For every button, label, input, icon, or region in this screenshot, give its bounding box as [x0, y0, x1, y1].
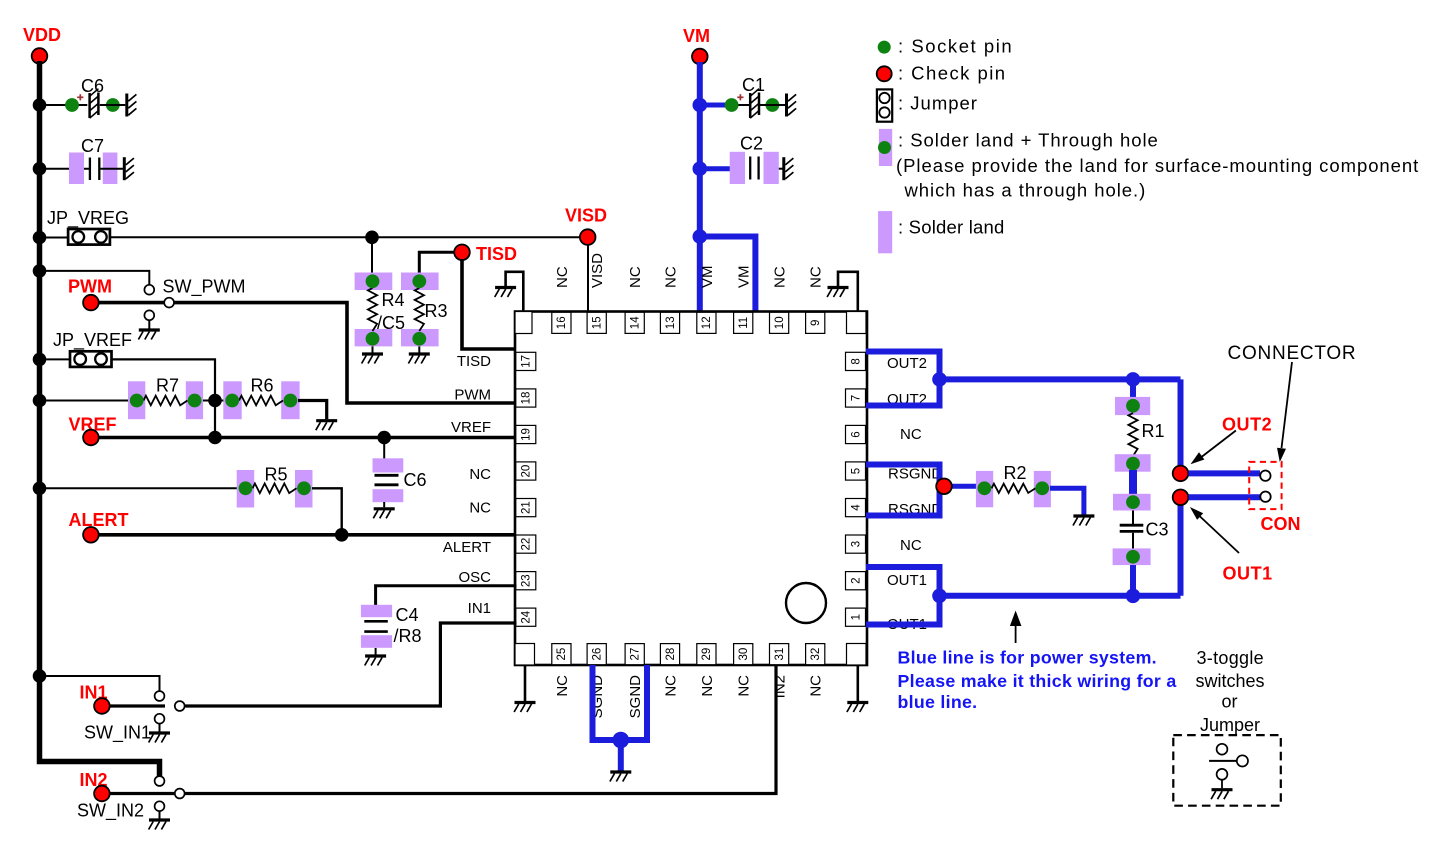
svg-text:CONNECTOR: CONNECTOR — [1228, 343, 1357, 364]
corner pad bottom-left — [515, 644, 535, 666]
svg-text:16: 16 — [556, 316, 568, 329]
pin 22 — [516, 535, 536, 553]
solder land C4 top — [361, 605, 392, 617]
svg-text:which has a through hole.): which has a through hole.) — [904, 180, 1147, 201]
capacitor C4 — [364, 620, 388, 623]
ground C2 — [784, 157, 794, 180]
svg-text:NC: NC — [469, 500, 491, 517]
svg-text:C6: C6 — [404, 470, 427, 490]
pin 19 — [516, 425, 536, 443]
svg-text:NC: NC — [699, 675, 716, 697]
wire R1 tap — [1130, 379, 1136, 398]
svg-text:1: 1 — [850, 614, 862, 620]
solder land C2 right — [764, 152, 779, 184]
wire OUT1 to CON — [1189, 494, 1261, 500]
ground C6 — [127, 94, 137, 117]
wire C4 to ground — [375, 648, 377, 655]
socket pin C3 top — [1126, 495, 1140, 509]
junction OUT1 tee — [932, 589, 947, 604]
ground R6 — [316, 421, 337, 431]
wire JP_VREG to VISD — [110, 236, 580, 238]
svg-text:NC: NC — [808, 266, 825, 288]
wire VDD to C7 — [40, 168, 90, 170]
svg-text:R2: R2 — [1004, 463, 1027, 483]
wire OUT2 drop — [1178, 379, 1184, 467]
svg-text:R7: R7 — [156, 376, 179, 396]
socket pin R6 left — [225, 394, 239, 408]
svg-text:3: 3 — [850, 541, 862, 547]
junction VM-C2 — [693, 161, 708, 176]
junction VDD-JP_VREG — [33, 231, 47, 245]
svg-text:ALERT: ALERT — [69, 510, 129, 530]
socket pin R2 left — [978, 481, 992, 495]
solder land C2 left — [730, 152, 745, 184]
wire OUT2 pins — [866, 352, 940, 406]
socket pin R3 bottom — [412, 332, 426, 346]
check pin PWM — [83, 295, 99, 311]
svg-text:7: 7 — [850, 395, 862, 401]
svg-text:JP_VREF: JP_VREF — [53, 330, 132, 351]
svg-text:VDD: VDD — [23, 25, 61, 45]
solder land R3 bottom — [401, 329, 439, 346]
wire VISD to pin15 — [587, 244, 589, 314]
svg-text:RSGND: RSGND — [888, 466, 942, 483]
capacitor C6 — [88, 93, 91, 118]
wire pad bottom-left to ground — [524, 665, 527, 701]
pin 32 — [806, 644, 825, 665]
svg-text:VM: VM — [683, 26, 710, 46]
ground top-left pad — [495, 288, 516, 298]
wire C3 to OUT1 — [1130, 565, 1136, 596]
check pin TISD — [454, 245, 470, 261]
junction VDD-R7 — [33, 394, 47, 408]
wire C7 to ground — [100, 168, 123, 170]
ground R4 — [362, 354, 383, 364]
svg-text:: Jumper: : Jumper — [898, 93, 978, 114]
pin 26 — [587, 644, 606, 665]
pin 18 — [516, 389, 536, 407]
svg-text:OUT2: OUT2 — [1222, 415, 1272, 435]
svg-text:10: 10 — [774, 316, 786, 329]
svg-text:TISD: TISD — [457, 353, 491, 370]
svg-text:R4: R4 — [382, 290, 405, 310]
pin 6 — [846, 425, 866, 443]
solder land R7 left — [128, 381, 145, 419]
wire SGND stem — [618, 740, 624, 771]
svg-text:(Please provide the land for s: (Please provide the land for surface-mou… — [896, 155, 1419, 176]
socket pin R7 right — [188, 394, 202, 408]
pin 3 — [846, 535, 866, 553]
wire C2 to ground — [779, 168, 783, 170]
pin 30 — [734, 644, 753, 665]
solder land R1 top — [1115, 397, 1150, 415]
capacitor C2 — [749, 157, 751, 180]
wire SW_PWM to ground — [148, 320, 150, 328]
wire C6b to ground — [383, 502, 385, 507]
svg-text:NC: NC — [900, 537, 922, 554]
wire C1 to ground — [760, 104, 785, 106]
connector CON pin 1 — [1260, 471, 1270, 481]
legend check pin symbol — [877, 66, 892, 81]
junction VREG-R4 — [365, 231, 379, 245]
legend solder land symbol — [878, 211, 892, 253]
resistor R6 — [239, 396, 283, 406]
check pin IN1 — [94, 698, 110, 714]
svg-text:SW_PWM: SW_PWM — [163, 277, 246, 298]
socket pin R4 bottom — [366, 332, 380, 346]
svg-text:25: 25 — [556, 648, 568, 661]
switch SW_PWM — [144, 285, 154, 295]
svg-text:PWM: PWM — [454, 387, 491, 404]
capacitor C1 — [738, 104, 750, 106]
wire IN1 to switch — [110, 704, 166, 707]
svg-text:R5: R5 — [265, 465, 288, 485]
svg-text:NC: NC — [554, 266, 571, 288]
pin 20 — [516, 462, 536, 480]
wire switch example to ground — [1221, 780, 1223, 789]
capacitor C1 polarity + — [737, 96, 743, 98]
svg-text:VREF: VREF — [451, 419, 491, 436]
arrow CONNECTOR to CON — [1282, 362, 1293, 448]
svg-text:C1: C1 — [742, 75, 765, 95]
solder land R2 right — [1034, 471, 1051, 507]
svg-text:32: 32 — [810, 648, 822, 661]
svg-text:NC: NC — [663, 266, 680, 288]
svg-text:OUT1: OUT1 — [887, 572, 927, 589]
svg-text:24: 24 — [521, 610, 533, 623]
svg-text:9: 9 — [810, 320, 822, 326]
svg-text:17: 17 — [521, 355, 533, 368]
wire VDD to JP_VREG — [40, 237, 69, 239]
svg-text:19: 19 — [521, 428, 533, 441]
svg-text:VISD: VISD — [589, 253, 606, 288]
pin 5 — [846, 462, 866, 480]
wire C6 to ground — [100, 104, 126, 106]
svg-text:OUT2: OUT2 — [887, 355, 927, 372]
wire R6 to ground — [298, 401, 327, 420]
wire R7 to junction — [203, 400, 224, 402]
connector CON outline — [1249, 462, 1281, 509]
wire VDD to R5 — [40, 487, 238, 489]
ground C6b — [373, 509, 394, 519]
wire RSGND pins — [866, 465, 940, 516]
wire JP_VREF to divider — [111, 359, 215, 437]
switch SW_IN2 — [155, 776, 165, 786]
wire VDD to SW_IN1 — [40, 676, 160, 691]
ground R2 — [1073, 516, 1094, 526]
pin 29 — [697, 644, 716, 665]
wire VDD to R7 — [40, 400, 130, 402]
ground top-right pad — [827, 288, 848, 298]
wire pad bottom-right to ground — [856, 665, 859, 701]
solder land R6 left — [223, 381, 241, 419]
svg-text:ALERT: ALERT — [443, 539, 491, 556]
IC pin1 indicator circle — [786, 583, 826, 623]
wire VM to C1 — [700, 103, 726, 108]
wire OUT1 rise — [1178, 503, 1184, 596]
connector CON pin 2 — [1260, 492, 1270, 502]
svg-text:Please make it thick wiring fo: Please make it thick wiring for a — [898, 671, 1177, 691]
svg-text:IN1: IN1 — [468, 600, 491, 617]
legend solder land + through hole symbol — [879, 129, 892, 166]
svg-text:2: 2 — [850, 577, 862, 583]
pin 31 — [770, 644, 789, 665]
junction VDD-IN1 — [33, 669, 47, 683]
arrow OUT1 label to pin — [1200, 516, 1240, 553]
ground C1 — [787, 94, 797, 117]
svg-text:IN2: IN2 — [772, 675, 789, 698]
svg-text:VISD: VISD — [565, 206, 607, 226]
check pin VISD — [580, 229, 596, 245]
pin 4 — [846, 499, 866, 517]
svg-text:30: 30 — [738, 648, 750, 661]
solder land R1 bottom — [1115, 454, 1151, 472]
check pin VM — [692, 49, 708, 65]
svg-text:23: 23 — [521, 574, 533, 587]
pin 12 — [697, 312, 716, 333]
pin 24 — [516, 608, 536, 626]
wire C3 top — [1132, 511, 1134, 525]
pin 16 — [552, 312, 571, 333]
pin 10 — [770, 312, 789, 333]
arrow OUT2 label to pin — [1200, 431, 1236, 459]
wire SGND pins to ground — [593, 665, 648, 740]
svg-text:15: 15 — [592, 316, 604, 329]
ground switch example — [1211, 790, 1232, 800]
wire pad top-left to ground — [506, 272, 524, 312]
pin 13 — [660, 312, 679, 333]
ground SW_IN2 — [149, 820, 170, 830]
solder land C7 right — [103, 153, 118, 185]
pin 14 — [625, 312, 644, 333]
svg-text:Blue line is for power system.: Blue line is for power system. — [898, 648, 1157, 668]
wire pad top-right to ground — [838, 272, 858, 312]
pin 7 — [846, 389, 866, 407]
svg-text:26: 26 — [592, 648, 604, 661]
ground C4 — [365, 656, 386, 666]
svg-text:R6: R6 — [251, 376, 274, 396]
svg-text:JP_VREG: JP_VREG — [47, 208, 129, 229]
check pin OUT2 — [1173, 466, 1189, 482]
svg-text:C2: C2 — [740, 134, 763, 154]
socket pin C1 left — [725, 98, 739, 112]
ground C7 — [124, 157, 134, 180]
svg-text:31: 31 — [774, 648, 786, 661]
junction VDD-JP_VREF — [33, 353, 47, 367]
svg-text:VM: VM — [699, 266, 716, 289]
check pin RSGND — [936, 479, 952, 495]
wire C3 bottom — [1132, 533, 1134, 549]
svg-text:switches: switches — [1196, 671, 1265, 691]
ground bottom-left pad — [514, 703, 535, 713]
capacitor C6b — [375, 474, 399, 477]
wire OUT2 to connector — [940, 376, 1181, 382]
pin 27 — [625, 644, 644, 665]
svg-text:: Socket pin: : Socket pin — [898, 36, 1013, 57]
svg-text:20: 20 — [521, 465, 533, 478]
wire R1 to C3 land — [1129, 470, 1137, 496]
junction R7-R6 — [208, 394, 222, 408]
svg-text:NC: NC — [808, 675, 825, 697]
corner pad bottom-right — [847, 644, 867, 666]
pin 25 — [552, 644, 571, 665]
resistor R5 — [253, 484, 297, 494]
svg-text:4: 4 — [850, 504, 862, 511]
svg-text:C7: C7 — [81, 136, 104, 156]
resistor R2 — [992, 484, 1036, 493]
svg-text:29: 29 — [701, 648, 713, 661]
wire VDD to C6 — [40, 104, 88, 106]
pin 9 — [806, 312, 825, 333]
solder land R4 bottom — [355, 329, 393, 346]
solder land R5 right — [295, 470, 313, 508]
junction OUT2-R1 — [1126, 372, 1141, 387]
junction VDD-C7 — [33, 162, 47, 176]
corner pad top-right — [847, 312, 867, 334]
wire IN2 to switch — [110, 792, 186, 795]
wire R2 to ground — [1050, 488, 1084, 514]
svg-text:8: 8 — [850, 358, 862, 364]
wire VDD vertical bus — [40, 61, 160, 777]
solder land C7 left — [69, 153, 84, 185]
pin 23 — [516, 572, 536, 590]
wire OSC net — [376, 586, 517, 606]
pin 11 — [734, 312, 753, 333]
capacitor C3 — [1120, 524, 1144, 527]
switch example — [1209, 760, 1237, 762]
svg-text:22: 22 — [521, 538, 533, 551]
check pin VREF — [83, 430, 99, 446]
socket pin R1 top — [1126, 399, 1140, 413]
jumper JP_VREG — [68, 229, 110, 245]
wire OUT1 pins — [866, 567, 940, 625]
ground SW_PWM — [138, 330, 159, 340]
solder land C3 top — [1113, 494, 1151, 511]
arrow note to OUT1 wire — [1015, 623, 1017, 643]
svg-text:NC: NC — [663, 675, 680, 697]
svg-text:OUT1: OUT1 — [1223, 564, 1273, 584]
svg-text:NC: NC — [469, 466, 491, 483]
socket pin C6 right — [106, 98, 120, 112]
svg-text:C4: C4 — [396, 605, 419, 625]
junction VDD-SW_PWM — [33, 264, 47, 278]
resistor R3 — [415, 288, 424, 331]
wire IN1 net to pin24 — [184, 623, 517, 706]
svg-text:NC: NC — [627, 266, 644, 288]
svg-text:3-toggle: 3-toggle — [1197, 648, 1264, 668]
wire SW_IN2 to ground — [159, 811, 161, 818]
svg-text:NC: NC — [900, 426, 922, 443]
svg-text:R1: R1 — [1142, 421, 1165, 441]
solder land C4 bottom — [361, 635, 392, 648]
svg-text:PWM: PWM — [68, 277, 112, 297]
socket pin R4 top — [366, 274, 380, 288]
wire TISD to R3 — [419, 252, 454, 273]
svg-text:R3: R3 — [425, 301, 448, 321]
svg-text:NC: NC — [772, 266, 789, 288]
check pin IN2 — [94, 786, 110, 802]
junction VM-C1 — [693, 98, 708, 113]
svg-text:VM: VM — [736, 266, 753, 289]
corner pad top-left — [515, 312, 532, 334]
toggle switch example box — [1173, 735, 1281, 806]
solder land C3 bottom — [1113, 548, 1151, 565]
IC U1 body — [515, 312, 867, 666]
wire ALERT net — [99, 533, 517, 537]
svg-text:NC: NC — [554, 675, 571, 697]
socket pin R5 right — [297, 481, 311, 495]
wire OUT1 to connector — [940, 593, 1181, 599]
svg-text:SW_IN1: SW_IN1 — [84, 723, 151, 744]
resistor R1 — [1128, 413, 1137, 456]
svg-text:Jumper: Jumper — [1200, 715, 1260, 735]
wire VREG junction to R4 — [371, 237, 373, 273]
svg-text:12: 12 — [701, 316, 713, 329]
wire R3 to ground — [418, 346, 420, 352]
pin 1 — [846, 608, 866, 626]
svg-text:OSC: OSC — [458, 569, 491, 586]
socket pin R3 top — [412, 274, 426, 288]
svg-text:13: 13 — [665, 316, 677, 329]
junction OUT2 tee — [932, 372, 947, 387]
resistor R4 — [368, 288, 377, 331]
switch SW_IN1 — [155, 691, 165, 701]
pin 28 — [660, 644, 679, 665]
svg-text:SW_IN2: SW_IN2 — [77, 801, 144, 822]
pin 2 — [846, 572, 866, 590]
junction OUT1-C3 — [1126, 589, 1141, 604]
jumper JP_VREF — [70, 351, 112, 367]
wire VM vertical — [697, 62, 703, 314]
capacitor C6 polarity + — [77, 96, 83, 98]
socket pin R1 bottom — [1126, 457, 1140, 471]
wire OUT2 to CON — [1189, 470, 1261, 476]
svg-text:6: 6 — [850, 431, 862, 437]
solder land R2 left — [976, 471, 993, 507]
wire TISD net — [462, 259, 517, 349]
svg-text:CON: CON — [1261, 514, 1301, 534]
ground SW_IN1 — [149, 733, 170, 743]
ground R3 — [408, 354, 429, 364]
wire VM branch to pin11 — [700, 237, 756, 315]
svg-text:C3: C3 — [1146, 520, 1169, 540]
solder land R5 left — [237, 470, 255, 508]
junction VREF-divider — [208, 431, 222, 445]
check pin OUT1 — [1173, 490, 1189, 506]
wire PWM net — [99, 303, 517, 403]
svg-text:or: or — [1222, 692, 1238, 712]
junction VREF-C6b — [377, 431, 391, 445]
solder land R6 right — [281, 381, 299, 419]
socket pin C3 bottom — [1126, 550, 1140, 564]
wire VDD to JP_VREF — [40, 358, 71, 360]
svg-text:: Solder land + Through hole: : Solder land + Through hole — [898, 130, 1159, 151]
wire VREF net — [99, 436, 517, 440]
pin 8 — [846, 352, 866, 370]
pin 15 — [587, 312, 606, 333]
ground bottom-right pad — [847, 703, 868, 713]
socket pin R7 left — [130, 394, 144, 408]
svg-text:NC: NC — [736, 675, 753, 697]
junction VDD-R5 — [33, 482, 47, 496]
junction VM-pin11 — [693, 229, 708, 244]
socket pin R5 left — [239, 481, 253, 495]
legend jumper symbol — [877, 89, 892, 121]
solder land R4 top — [355, 273, 393, 291]
solder land R7 right — [186, 381, 203, 419]
ground SGND — [610, 772, 631, 782]
junction SGND — [613, 732, 630, 749]
